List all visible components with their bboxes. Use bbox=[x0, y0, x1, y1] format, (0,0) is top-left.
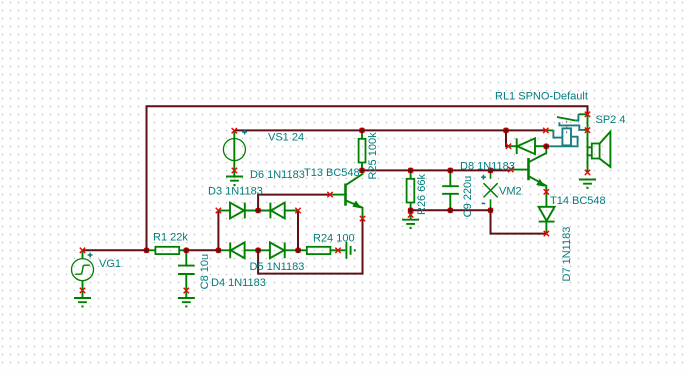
svg-text:T14 BC548: T14 BC548 bbox=[550, 195, 606, 207]
svg-text:R24 100: R24 100 bbox=[313, 233, 355, 245]
svg-text:VG1: VG1 bbox=[99, 258, 121, 270]
svg-text:D3 1N1183: D3 1N1183 bbox=[208, 186, 263, 198]
svg-text:D4 1N1183: D4 1N1183 bbox=[211, 277, 266, 289]
svg-text:D6 1N1183: D6 1N1183 bbox=[250, 169, 305, 181]
svg-text:VS1 24: VS1 24 bbox=[268, 131, 304, 143]
svg-text:R25 100k: R25 100k bbox=[367, 132, 379, 180]
svg-text:RL1 SPNO-Default: RL1 SPNO-Default bbox=[495, 91, 588, 103]
svg-text:C8 10u: C8 10u bbox=[199, 254, 211, 289]
svg-text:R26 66k: R26 66k bbox=[416, 174, 428, 215]
svg-text:D7 1N1183: D7 1N1183 bbox=[561, 227, 573, 282]
svg-text:C9 220u: C9 220u bbox=[462, 176, 474, 218]
svg-text:T13 BC548: T13 BC548 bbox=[304, 167, 360, 179]
svg-text:D8 1N1183: D8 1N1183 bbox=[460, 160, 515, 172]
svg-text:R1 22k: R1 22k bbox=[153, 232, 188, 244]
svg-text:VM2: VM2 bbox=[499, 186, 522, 198]
svg-text:SP2 4: SP2 4 bbox=[596, 114, 626, 126]
svg-text:D5 1N1183: D5 1N1183 bbox=[250, 261, 305, 273]
